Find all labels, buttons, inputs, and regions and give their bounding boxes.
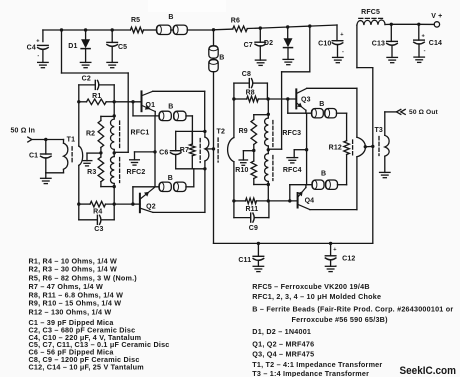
capacitor C11 (238, 243, 263, 266)
resistor R5 (130, 17, 143, 33)
transformer T2 primary (205, 131, 209, 168)
svg-text:Ferroxcube #56 590 65/3B): Ferroxcube #56 590 65/3B) (292, 315, 389, 324)
ground C10 (333, 57, 344, 62)
wire emitter link vertical (154, 116, 156, 187)
node RFC mid (113, 151, 116, 154)
wire Q3 base (268, 98, 295, 100)
capacitor C12 (325, 243, 355, 269)
svg-text:C3: C3 (94, 226, 103, 233)
svg-text:D1, D2 – 1N4001: D1, D2 – 1N4001 (252, 327, 311, 336)
svg-text:B: B (168, 175, 173, 182)
wire V+ rail (391, 23, 434, 25)
wire Q1 base (114, 101, 140, 103)
transformer T3 core left (352, 140, 354, 156)
capacitor C10 (318, 25, 344, 57)
transformer T2 core right (217, 129, 225, 162)
node supply-feed junction (212, 28, 215, 31)
wire Q2 base line (79, 203, 140, 205)
wire Q4 bead to R12 (338, 155, 347, 185)
resistor R10 (235, 151, 268, 185)
wire Q2 collector (153, 169, 205, 213)
ferrite bead B (Q1 emitter, first) (159, 111, 171, 120)
node R1-C2 right (113, 100, 116, 103)
inductor RFC2 (111, 153, 146, 187)
svg-text:C5: C5 (118, 44, 127, 51)
resistor R1 (79, 93, 114, 104)
wire RFC5-left drop (357, 25, 373, 67)
transistor Q3 (296, 88, 310, 110)
svg-text:RFC4: RFC4 (283, 167, 302, 174)
resistor R12 (329, 141, 350, 155)
svg-text:R12: R12 (329, 144, 342, 151)
svg-text:T3 – 1:4 Impedance Transformer: T3 – 1:4 Impedance Transformer (252, 369, 369, 377)
wire R9R10 mid ground elbow (243, 151, 253, 160)
resistor R6 (231, 17, 247, 31)
wire RFC4 to base line (267, 185, 269, 201)
svg-text:RFC2: RFC2 (127, 169, 146, 176)
node RFC3 top (267, 113, 270, 116)
ferrite bead B (Q4 emitter, first) (312, 180, 324, 189)
wire Q4 collector (310, 157, 357, 210)
node R9-R10 mid (252, 149, 255, 152)
svg-text:Q1: Q1 (145, 102, 155, 109)
ferrite bead B (Q3 emitter, first) (312, 109, 324, 118)
wire bottom supply rail (214, 242, 373, 244)
ground C5 (107, 62, 118, 67)
wire Q3 emitter drop (305, 110, 307, 113)
resistor R4 (90, 201, 106, 215)
wire Q4 base line (234, 200, 297, 202)
ferrite bead B (Q3 emitter, second) (319, 101, 336, 118)
wire T3 tap (365, 145, 373, 147)
ground R2R3 mid (82, 161, 92, 166)
capacitor C2 (79, 75, 114, 89)
svg-text:R11: R11 (245, 206, 258, 213)
node D2 top (286, 25, 289, 28)
node R8 left / T2 sec top (232, 97, 235, 100)
wire Q2 bead up to box (186, 169, 194, 187)
wire top-left supply rail (43, 29, 214, 31)
wire R9 top elbow (254, 115, 268, 120)
svg-text:50 Ω Out: 50 Ω Out (409, 109, 438, 116)
svg-text:T3: T3 (374, 127, 382, 134)
node C5 top (111, 28, 114, 31)
ferrite bead B (Q2 emitter, second) (168, 175, 186, 192)
capacitor C14 (414, 24, 442, 57)
svg-text:Q3: Q3 (301, 97, 311, 104)
node C12 top (329, 242, 332, 245)
watermark SeekIC.com (400, 365, 457, 377)
inductor RFC1 core (119, 121, 121, 148)
ferrite bead B (supply, lower) (209, 54, 225, 71)
inductor RFC2 core (119, 158, 121, 183)
svg-text:C4: C4 (27, 44, 36, 51)
node C13 top (390, 23, 393, 26)
ground C11 (253, 266, 264, 271)
node Q1 base junction (131, 100, 134, 103)
wire Q3 collector (307, 88, 357, 137)
svg-text:C8: C8 (242, 71, 251, 78)
transformer T3 primary (357, 137, 366, 157)
node R4 left (77, 202, 80, 205)
node bias-right junction (308, 24, 311, 27)
resistor R8 (234, 89, 268, 101)
capacitor C4 (27, 30, 49, 62)
node R8 right (266, 97, 269, 100)
svg-text:C12: C12 (342, 255, 355, 262)
capacitor C7 (244, 28, 266, 60)
svg-text:R4: R4 (93, 208, 102, 215)
svg-text:C10: C10 (318, 40, 331, 47)
node T1-sec / R1 left (77, 100, 80, 103)
wire emitter link vertical right (306, 113, 308, 185)
node R11 right (267, 199, 270, 202)
svg-text:RFC3: RFC3 (282, 130, 301, 137)
inductor RFC3 (265, 118, 302, 150)
terminal 50 ohm input arrow (11, 128, 64, 142)
ferrite bead B (after R5, first) (157, 25, 171, 34)
svg-text:R2, R3 – 30 Ohms, 1/4 W: R2, R3 – 30 Ohms, 1/4 W (29, 265, 118, 274)
svg-text:Q1, Q2 – MRF476: Q1, Q2 – MRF476 (252, 339, 314, 348)
wire Q3 bead to R12 (337, 113, 347, 141)
ferrite bead B (Q4 emitter, second) (321, 170, 338, 189)
parts list right column (252, 282, 453, 377)
node RFC1 top (113, 114, 116, 117)
svg-text:R6: R6 (231, 17, 240, 24)
node R4 right (113, 202, 116, 205)
transformer T3 core right (374, 127, 382, 155)
ground emitter link right (287, 158, 298, 163)
capacitor C1 (29, 140, 51, 173)
ground T3 secondary (380, 172, 391, 177)
svg-text:R10: R10 (235, 167, 248, 174)
ground D1 (80, 62, 91, 67)
ground emitter link (130, 160, 140, 165)
terminal 50 ohm output (385, 109, 439, 116)
svg-text:R9: R9 (239, 128, 248, 135)
svg-text:50 Ω In: 50 Ω In (11, 128, 36, 135)
capacitor C3 (79, 204, 114, 233)
wire Q4 emitter drop (305, 185, 307, 188)
transformer T1 core (71, 147, 73, 163)
svg-text:-: - (424, 48, 426, 54)
wire Q1 base-emitter elbow (133, 102, 159, 116)
ground C4 (38, 62, 49, 67)
svg-text:R7: R7 (180, 147, 189, 154)
wire bias line right (268, 26, 310, 149)
svg-text:D1: D1 (68, 43, 77, 50)
transistor Q2 (140, 187, 156, 212)
ferrite bead B (Q1 emitter, second) (168, 104, 186, 121)
wire T1 primary bottom (46, 172, 64, 174)
node Q2 base junction (131, 202, 134, 205)
transformer T2 secondary (228, 99, 234, 201)
svg-text:T2: T2 (217, 129, 225, 136)
svg-text:+: + (333, 247, 337, 253)
svg-text:T1, T2 – 4:1 Impedance Transfo: T1, T2 – 4:1 Impedance Transformer (252, 360, 382, 369)
wire RFC2 to base line (113, 187, 115, 205)
svg-text:Q3, Q4 – MRF475: Q3, Q4 – MRF475 (252, 350, 314, 359)
svg-text:SeekIC.com: SeekIC.com (400, 365, 457, 377)
node emitter-link / ground (305, 148, 308, 151)
svg-text:Q4: Q4 (305, 198, 315, 205)
svg-text:R9, R10 – 15 Ohms, 1/4 W: R9, R10 – 15 Ohms, 1/4 W (29, 299, 122, 308)
svg-text:C12, C14 – 10 μF, 25 V Tantalu: C12, C14 – 10 μF, 25 V Tantalum (29, 362, 144, 371)
capacitor C6 (159, 150, 181, 157)
node T3 primary tap (364, 145, 367, 148)
node ground-link (153, 150, 156, 153)
transformer T2 core left (199, 139, 201, 163)
svg-text:RFC1, 2, 3, 4 – 10 μH Molded C: RFC1, 2, 3, 4 – 10 μH Molded Choke (252, 292, 381, 301)
node T2 center-tap (212, 147, 215, 150)
ground C13 (387, 57, 398, 62)
wire C8 box left (233, 83, 235, 99)
node input (44, 138, 47, 141)
svg-text:C11: C11 (238, 257, 251, 264)
wire T2 box left (175, 131, 177, 168)
parts list left column (29, 256, 170, 371)
capacitor C5 (107, 30, 127, 62)
svg-text:B: B (321, 170, 326, 177)
node rail-bias junction (60, 28, 63, 31)
wire emitter-link ground elbow right (294, 150, 306, 158)
svg-text:R5: R5 (131, 17, 140, 24)
inductor RFC1 (111, 116, 150, 153)
transformer T1 primary (64, 137, 76, 173)
svg-text:C6: C6 (159, 150, 168, 157)
node RFC34 mid (267, 148, 270, 151)
svg-text:RFC5: RFC5 (361, 9, 380, 16)
wire Q1 collector (153, 91, 205, 131)
svg-text:C2: C2 (82, 75, 91, 82)
node Q4 base junction (288, 199, 291, 202)
svg-text:-: - (37, 53, 39, 59)
resistor R2 (86, 121, 104, 153)
resistor R3 (87, 153, 114, 187)
wire Q4 base-emitter elbow (290, 185, 312, 201)
wire Q1 bead to R7 (186, 116, 192, 144)
resistor R11 (245, 198, 258, 213)
wire R2R3 mid ground elbow (87, 153, 101, 161)
wire emitter-link ground elbow (135, 152, 156, 160)
node RFC4 bottom (267, 183, 270, 186)
wire T2 box top (176, 130, 205, 132)
diode D2 (264, 27, 293, 59)
inductor RFC5 (357, 9, 391, 25)
transistor Q4 (298, 188, 315, 210)
svg-text:C1: C1 (29, 152, 38, 159)
wire top-right rail (214, 25, 338, 30)
wire Q2 base-emitter elbow (133, 187, 159, 204)
node T2 primary bottom (203, 167, 206, 170)
svg-text:B: B (168, 14, 173, 21)
svg-text:B: B (219, 54, 224, 61)
svg-text:C7: C7 (244, 42, 253, 49)
svg-text:R1: R1 (92, 93, 101, 100)
node T2 primary top (203, 130, 206, 133)
wire RFC3 top link (267, 99, 269, 118)
wire C2-R1 right link (113, 85, 115, 102)
inductor RFC3 core (272, 121, 274, 147)
ground C14 (414, 57, 425, 62)
svg-text:T1: T1 (67, 137, 75, 144)
svg-text:R2: R2 (86, 130, 95, 137)
wire supply feed vertical (213, 30, 215, 244)
svg-text:R3: R3 (87, 169, 96, 176)
node D1 top (84, 28, 87, 31)
transformer T3 secondary (385, 112, 389, 172)
svg-text:RFC5 – Ferroxcube VK200 19/4B: RFC5 – Ferroxcube VK200 19/4B (252, 282, 369, 291)
svg-text:+: + (340, 32, 344, 38)
svg-text:+: + (421, 34, 425, 40)
ground C1 (41, 173, 52, 184)
terminal V+ (431, 13, 442, 27)
wire R2 top elbow (101, 102, 114, 121)
svg-text:V +: V + (431, 13, 442, 20)
ground R9R10 mid (239, 160, 247, 165)
svg-text:B – Ferrite Beads (Fair-Rite P: B – Ferrite Beads (Fair-Rite Prod. Corp.… (252, 305, 453, 314)
wire T2 box bottom (176, 168, 205, 170)
wire Q3 base-emitter elbow (288, 99, 312, 113)
svg-text:RFC1: RFC1 (131, 130, 150, 137)
ground D2 (283, 59, 294, 64)
resistor R7 (180, 131, 195, 168)
node C14 top (417, 23, 420, 26)
svg-text:-: - (342, 49, 344, 55)
wire Q1 emitter drop (154, 112, 156, 116)
wire bias line left (62, 30, 129, 152)
node RFC2 bottom (113, 185, 116, 188)
svg-text:Q2: Q2 (146, 203, 156, 210)
node Q3 base junction (286, 97, 289, 100)
inductor RFC4 (265, 150, 302, 185)
node R11 left / T2 sec bottom (232, 199, 235, 202)
svg-text:+: + (36, 39, 40, 45)
capacitor C9 (234, 201, 269, 232)
svg-text:R8: R8 (246, 89, 255, 96)
node C7 top (259, 26, 262, 29)
svg-text:C14: C14 (429, 40, 442, 47)
svg-text:B: B (168, 104, 173, 111)
node R2-R3 mid (99, 151, 102, 154)
transistor Q1 (142, 91, 156, 111)
diode D1 (68, 30, 90, 62)
svg-text:B: B (319, 101, 324, 108)
ferrite bead B (after R5, second) (168, 14, 187, 35)
inductor RFC4 core (272, 156, 274, 181)
svg-text:C13: C13 (372, 41, 385, 48)
ferrite bead B (supply, upper) (209, 46, 218, 58)
capacitor C8 (234, 71, 268, 99)
svg-text:R12 – 130 Ohms, 1/4 W: R12 – 130 Ohms, 1/4 W (29, 308, 112, 317)
capacitor C13 (372, 24, 398, 57)
ground C7 (255, 60, 266, 65)
ferrite bead B (Q2 emitter, first) (159, 182, 171, 191)
node C11 top (257, 242, 260, 245)
resistor R9 (239, 120, 257, 151)
node T3 center-tap (371, 145, 374, 148)
transformer T1 secondary (79, 85, 83, 204)
ground C12 (325, 266, 336, 271)
wire supply right vertical (372, 68, 374, 244)
svg-text:D2: D2 (264, 40, 273, 47)
svg-text:C9: C9 (249, 225, 258, 232)
wire T2 tap (206, 148, 214, 150)
